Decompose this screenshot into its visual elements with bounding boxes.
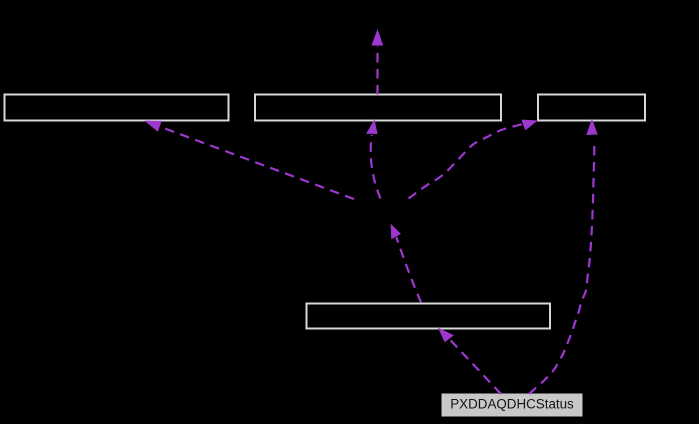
node box std::pair (top-middle) (255, 95, 501, 121)
node box (top-right) (538, 95, 645, 121)
central node PXDDAQDHCStatus (442, 394, 583, 417)
node box std::map (top-left) (5, 95, 229, 121)
edge: PXDDAQDHCStatus to top-right box (long right curve) (529, 119, 598, 395)
edge: center node to top-right box (409, 120, 538, 199)
edge: PXDDAQDHCStatus to middle-lower box (438, 328, 501, 395)
svg-text:PXDDAQDHCStatus: PXDDAQDHCStatus (450, 397, 574, 412)
edge: middle-lower box up to center node (391, 224, 421, 303)
edge: center node to top-left box (144, 121, 354, 199)
node box std::map (middle-lower) (307, 304, 551, 329)
edge: center node up to top-middle box (366, 119, 380, 198)
edge: top-middle box up to off-diagram node (372, 29, 384, 95)
